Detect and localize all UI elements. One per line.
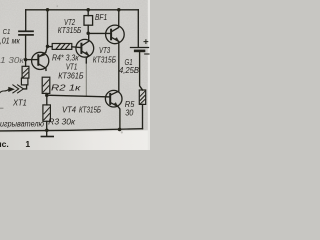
resistor R5 body bbox=[139, 90, 145, 104]
transistor VT1 circle bbox=[32, 52, 49, 69]
capacitor C1 plates bbox=[19, 30, 33, 32]
svg-text:ХТ1: ХТ1 bbox=[12, 99, 27, 108]
svg-text:С1: С1 bbox=[3, 27, 11, 36]
resistor R2 bottom lead bbox=[45, 93, 48, 95]
transistor VT3 base bar bbox=[110, 30, 112, 40]
svg-text:Рис.: Рис. bbox=[0, 139, 9, 149]
resistor R3 bottom lead bbox=[46, 121, 48, 136]
resistor R2 body bbox=[42, 77, 50, 93]
headphone BF1 body bbox=[84, 16, 93, 26]
resistor R4 body bbox=[52, 44, 72, 50]
battery G1 long plate + bbox=[131, 47, 149, 49]
headphone BF1 lead bottom bbox=[87, 25, 89, 33]
wire: node A up to rail bbox=[47, 10, 49, 47]
transistor VT2 base bar bbox=[80, 44, 82, 53]
transistor VT4 emitter (NPN arrow out) bbox=[110, 103, 117, 107]
transistor VT4 circle bbox=[105, 90, 122, 107]
wire: right drop to battery + bbox=[137, 10, 139, 47]
node dot on rail above BF1 bbox=[86, 8, 90, 12]
transistor VT4 base bar bbox=[109, 94, 111, 104]
connector XT1 flexible wire to edge bbox=[0, 89, 9, 92]
svg-text:КТ361Б: КТ361Б bbox=[58, 70, 84, 80]
node A dot bbox=[46, 45, 50, 49]
svg-text:VT3: VT3 bbox=[99, 45, 110, 55]
transistor VT3 circle bbox=[106, 25, 125, 44]
resistor R5 bottom lead bbox=[142, 104, 144, 128]
connector XT1 chevrons bbox=[18, 85, 24, 93]
scan speckles bbox=[0, 5, 123, 133]
wire: VT4 emitter down to bottom rail bbox=[118, 106, 120, 129]
ground chassis bar bbox=[41, 136, 53, 138]
transistor VT3 collector bbox=[111, 10, 118, 32]
transistor VT1 base bar bbox=[37, 55, 39, 65]
svg-text:1: 1 bbox=[25, 139, 30, 149]
svg-text:КТ315Б: КТ315Б bbox=[93, 55, 117, 65]
svg-text:R3 30к: R3 30к bbox=[48, 117, 76, 126]
wire: VT3 emitter down to VT4 collector bbox=[118, 42, 120, 92]
capacitor C1 bottom lead bbox=[25, 36, 27, 60]
node dot on rail above VT3 bbox=[117, 8, 121, 12]
transistor VT1 emitter wire to node A bbox=[46, 47, 48, 53]
svg-text:R2 1к: R2 1к bbox=[51, 84, 82, 93]
transistor VT1 emitter (PNP arrow to bar) bbox=[39, 52, 46, 57]
wire: bottom common rail bbox=[0, 129, 143, 131]
transistor VT4 collector bbox=[110, 92, 118, 95]
connector XT1 lead from square bbox=[23, 85, 26, 89]
transistor VT3 emitter (NPN arrow out) bbox=[111, 37, 118, 41]
wire: node to VT3 base bbox=[88, 32, 111, 34]
svg-text:VT4: VT4 bbox=[62, 105, 76, 115]
svg-text:КТ315Б: КТ315Б bbox=[79, 105, 101, 115]
connector XT1 socket square bbox=[21, 78, 28, 85]
svg-text:к проигрывателю: к проигрывателю bbox=[0, 120, 44, 129]
node dot R3 on bottom rail bbox=[45, 128, 49, 132]
svg-text:30: 30 bbox=[125, 109, 134, 118]
wire: VT2 emitter down bbox=[86, 56, 88, 64]
wire: mid rail (R2/R3 node to VT4 base) bbox=[47, 95, 110, 97]
svg-text:4,25В: 4,25В bbox=[119, 65, 139, 75]
svg-text:BF1: BF1 bbox=[95, 13, 107, 22]
battery G1 minus sign bbox=[145, 53, 149, 55]
resistor R3 body bbox=[43, 105, 51, 121]
svg-text:R1 30к: R1 30к bbox=[0, 56, 26, 65]
node dot on rail above A bbox=[46, 8, 50, 12]
battery G1 plus sign bbox=[144, 40, 148, 44]
capacitor C1 top lead bbox=[25, 10, 27, 31]
wire: VT1 base wire bbox=[26, 59, 39, 61]
svg-text:R5: R5 bbox=[125, 100, 135, 109]
node dot R2/R3 bbox=[45, 93, 49, 97]
wire: R4 to VT2 base bbox=[72, 46, 82, 49]
resistor R3 top lead bbox=[46, 95, 48, 105]
battery G1 bottom lead bbox=[140, 52, 143, 90]
wire: node A to R4 bbox=[48, 46, 53, 48]
node dot VT2 collector / VT3 base bbox=[86, 32, 90, 36]
battery G1 short plate - bbox=[135, 50, 144, 53]
wire: VT2 emitter drop (faint) bbox=[85, 62, 87, 96]
resistor R1 lead bbox=[25, 60, 27, 67]
svg-text:КТ315Б: КТ315Б bbox=[58, 25, 82, 35]
transistor VT2 circle bbox=[76, 39, 94, 57]
transistor VT2 emitter (NPN arrow out) bbox=[82, 51, 89, 55]
transistor VT1 collector bbox=[39, 64, 46, 71]
resistor R1 body bbox=[22, 66, 29, 78]
headphone BF1 lead top bbox=[87, 10, 89, 16]
node dot VT4 emitter on bottom rail bbox=[118, 128, 122, 132]
paper background bbox=[0, 0, 150, 150]
transistor VT2 collector bbox=[82, 33, 89, 45]
wire: top supply rail bbox=[26, 9, 139, 11]
svg-text:R4* 3,3к: R4* 3,3к bbox=[52, 53, 80, 62]
svg-text:0,01 мк: 0,01 мк bbox=[0, 37, 21, 46]
connector XT1 plug arrow bbox=[9, 87, 14, 91]
node: junction of C1, R1, VT1 base bbox=[24, 58, 28, 62]
